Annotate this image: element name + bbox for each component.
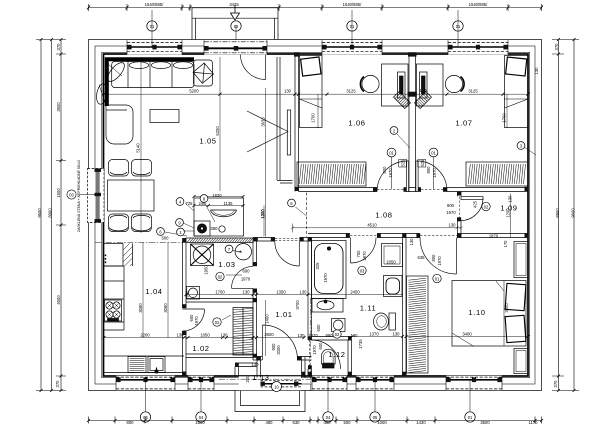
circled marker 02 entrance xyxy=(231,21,241,31)
wall 1.06/1.07 vertical xyxy=(409,54,416,192)
wall 1.01/1.11 vertical xyxy=(308,238,312,377)
svg-text:130: 130 xyxy=(298,333,306,338)
svg-text:600: 600 xyxy=(316,324,321,332)
svg-text:800: 800 xyxy=(382,166,387,174)
DOORS xyxy=(183,55,484,370)
bathtub 1.11 xyxy=(312,241,347,299)
chair 1.07 xyxy=(445,75,464,92)
svg-text:1370: 1370 xyxy=(369,332,379,337)
svg-text:1970: 1970 xyxy=(432,168,437,178)
marker 02 door 1.09 xyxy=(482,202,490,210)
svg-text:1300: 1300 xyxy=(260,209,265,219)
kitchen island xyxy=(194,198,244,236)
right dimension chains xyxy=(559,40,575,391)
bed 1.10 xyxy=(452,281,526,347)
circled marker 01 window living xyxy=(147,21,157,31)
svg-text:525: 525 xyxy=(401,159,406,167)
wall 1.11/1.10 vertical xyxy=(403,238,407,377)
svg-text:2450: 2450 xyxy=(350,290,360,295)
svg-text:03: 03 xyxy=(360,268,365,273)
FURNITURE xyxy=(95,56,528,374)
svg-text:500: 500 xyxy=(162,236,170,241)
svg-text:02: 02 xyxy=(335,332,340,337)
svg-text:370: 370 xyxy=(553,380,558,388)
svg-text:635: 635 xyxy=(418,255,426,260)
svg-text:4600: 4600 xyxy=(56,295,61,305)
svg-text:380: 380 xyxy=(211,226,219,231)
svg-text:01: 01 xyxy=(150,24,155,29)
svg-text:06: 06 xyxy=(143,415,148,420)
svg-text:130: 130 xyxy=(393,332,401,337)
kitchen tall cabinets + fridge xyxy=(104,244,133,267)
svg-text:9600: 9600 xyxy=(571,208,576,218)
dining chair top-right xyxy=(132,160,152,177)
floor lamp living xyxy=(95,60,127,105)
svg-text:1540/885/: 1540/885/ xyxy=(469,2,488,7)
wall 1.08/1.09 vertical xyxy=(458,192,462,238)
svg-text:02: 02 xyxy=(215,320,220,325)
exterior wall inner face xyxy=(104,54,529,376)
island dims xyxy=(194,197,264,237)
svg-text:1970: 1970 xyxy=(437,256,442,266)
svg-text:370: 370 xyxy=(56,43,61,51)
marker 02 door 1.02 xyxy=(213,318,221,326)
wall 1.02 bottom horizontal xyxy=(186,354,253,358)
svg-text:01: 01 xyxy=(389,150,394,155)
svg-text:ZASKLENÁ STENA + NEPRIEHĽADNÉ: ZASKLENÁ STENA + NEPRIEHĽADNÉ SKLO xyxy=(76,160,81,233)
walls room 1.13 xyxy=(235,357,305,378)
svg-text:940: 940 xyxy=(185,290,190,298)
svg-text:4510: 4510 xyxy=(367,223,377,228)
window W01 top (bedroom 1.06) xyxy=(322,10,382,55)
entrance arrow xyxy=(231,5,240,47)
marker 01 door 1.07 xyxy=(429,148,438,189)
svg-text:370: 370 xyxy=(554,43,559,51)
svg-text:130: 130 xyxy=(351,333,359,338)
sliding direction arrows xyxy=(247,111,288,152)
vanity with basin 1.11 bottom xyxy=(312,299,343,313)
svg-text:3125: 3125 xyxy=(346,89,356,94)
bedside cabinet 1.10 bottom xyxy=(514,349,528,374)
marker 01 door 1.10 xyxy=(433,274,441,282)
svg-text:01: 01 xyxy=(456,24,461,29)
svg-text:525: 525 xyxy=(420,159,425,167)
living vertical dim line 3630 xyxy=(265,88,267,237)
bottom window W04 (1.12) xyxy=(312,376,347,412)
marker 5 kitchen xyxy=(157,228,165,236)
door 1.13 leaf+swing xyxy=(263,325,298,360)
svg-text:130: 130 xyxy=(534,67,539,75)
door 1.09 leaf+swing xyxy=(461,197,483,221)
svg-text:1050: 1050 xyxy=(200,333,210,338)
window W02 entrance door top xyxy=(204,40,267,55)
corridor dim line xyxy=(291,224,463,233)
wall 1.11/1.12 horizontal xyxy=(312,337,352,341)
svg-text:600: 600 xyxy=(318,342,323,350)
svg-text:3125: 3125 xyxy=(468,89,478,94)
living vertical dim line 5200 xyxy=(219,57,221,191)
glazed partition stub living xyxy=(277,57,293,183)
svg-text:5140: 5140 xyxy=(136,143,141,153)
toilet 1.11 xyxy=(374,313,396,330)
svg-text:130: 130 xyxy=(300,290,308,295)
svg-text:01: 01 xyxy=(431,150,436,155)
svg-text:1170: 1170 xyxy=(528,420,538,425)
svg-text:1.04: 1.04 xyxy=(145,287,162,296)
svg-text:725: 725 xyxy=(186,201,194,206)
svg-text:10: 10 xyxy=(274,384,279,389)
kitchen counter left xyxy=(104,266,125,330)
svg-text:1135: 1135 xyxy=(223,201,233,206)
svg-text:1970: 1970 xyxy=(308,333,318,338)
marker 8 kitchen xyxy=(200,195,208,203)
window W01 top (bedroom 1.07) xyxy=(448,10,508,55)
washbasin 1.12 xyxy=(332,319,346,332)
marker 1 kitchen xyxy=(177,228,185,236)
leader lines kitchen callouts xyxy=(165,200,242,320)
svg-text:3080: 3080 xyxy=(138,303,143,313)
svg-text:325: 325 xyxy=(315,262,320,270)
svg-text:1700: 1700 xyxy=(502,113,507,123)
svg-text:800: 800 xyxy=(426,166,431,174)
svg-text:1700: 1700 xyxy=(311,113,316,123)
INTERIOR WALLS xyxy=(182,53,528,378)
marker 3 right wall xyxy=(517,142,525,150)
svg-text:130: 130 xyxy=(409,238,414,246)
svg-text:480: 480 xyxy=(266,420,274,425)
svg-text:800: 800 xyxy=(431,254,436,262)
svg-text:300: 300 xyxy=(245,375,250,383)
bottom dimension chain xyxy=(89,420,542,422)
rear porch bump 1.13 xyxy=(235,391,305,412)
svg-text:1.11: 1.11 xyxy=(360,304,377,313)
left chain ticks xyxy=(40,38,63,392)
svg-text:8960: 8960 xyxy=(48,208,53,218)
marker 02 door 1.03 xyxy=(216,272,224,280)
svg-text:2000: 2000 xyxy=(276,345,281,355)
marker 9 kitchen xyxy=(176,219,184,227)
wall 1.05/1.06 vertical xyxy=(295,54,299,192)
svg-text:02: 02 xyxy=(484,204,489,209)
circled marker 05 bottom xyxy=(370,412,380,422)
entrance porch top xyxy=(192,8,278,40)
coffee table living xyxy=(150,110,179,123)
wardrobe 1.07 hatched xyxy=(466,162,528,186)
bed 1.06 xyxy=(300,56,323,128)
svg-text:1200: 1200 xyxy=(506,208,511,218)
door 1.02 leaf+swing xyxy=(183,309,205,331)
svg-text:130: 130 xyxy=(449,223,457,228)
kitchen vertical dim lines xyxy=(143,243,168,338)
kitchen dim line y337.5 xyxy=(104,337,305,339)
corridor 1.01 top wall xyxy=(253,238,312,242)
dim line y294.5 xyxy=(186,294,312,296)
leader line marker 2 partition xyxy=(397,134,410,148)
sofa back living room xyxy=(107,59,194,106)
wardrobe 1.10 hatched xyxy=(407,276,429,373)
bottom window W06 (kitchen) xyxy=(116,376,175,412)
CIRCLED MARKERS xyxy=(157,127,525,339)
wall 1.01 bottom / 1.13 top xyxy=(253,357,312,361)
svg-text:960: 960 xyxy=(326,333,334,338)
dim line 1400 corridor 1.01 xyxy=(265,300,267,356)
circled marker 01 bottom right xyxy=(465,412,475,422)
bottom window W05 (1.11) xyxy=(356,376,394,412)
circled marker 04 bottom left xyxy=(196,412,206,422)
dim line 1200 room 1.09 xyxy=(509,194,511,239)
circled marker 06 bottom xyxy=(140,412,150,422)
chair 1.06 xyxy=(360,75,379,92)
svg-text:02: 02 xyxy=(218,274,223,279)
svg-text:1350: 1350 xyxy=(276,290,286,295)
desk 1.07 xyxy=(417,64,444,106)
top chain labels xyxy=(145,2,488,7)
kitchen stove xyxy=(105,300,122,321)
circled marker 10 rear porch xyxy=(272,382,282,392)
door 1.12 leaf+swing xyxy=(310,340,341,369)
dining chair top-left xyxy=(109,160,129,177)
svg-text:01: 01 xyxy=(350,24,355,29)
door 1.03 leaf+swing xyxy=(232,266,254,288)
svg-text:1.10: 1.10 xyxy=(468,308,485,317)
shower 1.03 xyxy=(191,244,214,266)
kitchen peninsula hatched wall xyxy=(186,238,253,243)
section dash-dot rear porch xyxy=(219,378,312,380)
marker 7 washer xyxy=(225,245,233,253)
svg-text:1700: 1700 xyxy=(215,290,225,295)
glazed wall left (opaque glass) xyxy=(80,169,104,223)
svg-text:1050: 1050 xyxy=(386,260,396,265)
svg-text:3400: 3400 xyxy=(462,332,472,337)
marker 03 door 1.11 xyxy=(358,266,366,274)
svg-text:3425: 3425 xyxy=(229,2,239,7)
INTERIOR DIM LINES xyxy=(95,57,536,392)
svg-text:1540/885/: 1540/885/ xyxy=(145,2,164,7)
svg-text:04: 04 xyxy=(326,415,331,420)
svg-text:01: 01 xyxy=(435,276,440,281)
svg-text:3700: 3700 xyxy=(295,300,300,310)
circled marker 01 window 1.07 xyxy=(453,21,463,31)
horizontal dim line y90 across top rooms xyxy=(104,93,528,95)
circled marker 01 window 1.06 xyxy=(347,21,357,31)
bedside cabinet 1.10 top xyxy=(514,242,528,278)
leader line marker 3 right xyxy=(524,147,536,155)
door 1.07 leaf+swing xyxy=(416,160,447,192)
desk 1.06 xyxy=(382,64,409,106)
svg-text:630: 630 xyxy=(293,420,301,425)
svg-text:130: 130 xyxy=(284,89,292,94)
bottom window W04 (1.02) xyxy=(188,376,214,412)
wardrobe 1.06 hatched xyxy=(297,162,366,186)
left dimension chains xyxy=(41,40,61,391)
svg-text:1.06: 1.06 xyxy=(348,119,365,128)
svg-text:1.08: 1.08 xyxy=(375,211,392,220)
window W01 top (living room) xyxy=(127,10,182,55)
door 1.11 leaf+swing xyxy=(351,238,377,264)
exterior wall insulation line xyxy=(95,46,535,384)
living vertical dim line 5140 xyxy=(140,57,142,233)
washing machine 1.03 xyxy=(233,244,252,260)
section dash-dot kitchen xyxy=(95,241,186,243)
washbasin counter 1.11 xyxy=(382,244,403,267)
bath dim line xyxy=(312,295,403,337)
svg-text:1.13: 1.13 xyxy=(252,373,269,382)
svg-text:800: 800 xyxy=(127,420,135,425)
dining table xyxy=(108,180,155,211)
BUILDING ENVELOPE xyxy=(80,5,542,422)
svg-text:1.02: 1.02 xyxy=(192,344,209,353)
svg-text:1.05: 1.05 xyxy=(199,137,216,146)
wall 1.04/1.03 vertical xyxy=(183,241,187,376)
wall 1.03/1.02 horizontal xyxy=(186,299,253,303)
svg-text:5200: 5200 xyxy=(215,126,220,136)
wall 1.12 right vertical xyxy=(348,340,352,376)
washbasin 1.03 xyxy=(187,287,200,300)
svg-text:1950: 1950 xyxy=(204,265,209,275)
svg-text:1540/885/: 1540/885/ xyxy=(343,2,362,7)
svg-text:500: 500 xyxy=(344,420,352,425)
svg-text:5200: 5200 xyxy=(189,89,199,94)
svg-text:3500: 3500 xyxy=(480,420,490,425)
svg-text:9600: 9600 xyxy=(37,208,42,218)
door 1.06 leaf+swing xyxy=(377,160,409,192)
svg-text:2000: 2000 xyxy=(504,303,509,313)
marker 01 door 1.06 xyxy=(387,148,396,189)
svg-text:600: 600 xyxy=(447,203,455,208)
svg-text:1970: 1970 xyxy=(388,168,393,178)
svg-text:130: 130 xyxy=(420,88,428,93)
door 1.10 leaf+swing xyxy=(420,238,457,275)
svg-text:1.03: 1.03 xyxy=(218,260,235,269)
marker 4 kitchen xyxy=(176,198,184,206)
leader line marker 6 corridor xyxy=(296,207,307,216)
svg-text:1970: 1970 xyxy=(446,210,456,215)
svg-text:3500: 3500 xyxy=(56,102,61,112)
svg-text:1735: 1735 xyxy=(358,339,363,349)
entrance door leaf+swing xyxy=(241,55,266,80)
svg-text:1870: 1870 xyxy=(489,233,499,238)
svg-text:8960: 8960 xyxy=(555,208,560,218)
svg-text:1830: 1830 xyxy=(212,193,222,198)
bedroom bed dim verticals xyxy=(318,94,507,128)
leader circle 03 left xyxy=(67,190,76,199)
bottom window W01 (1.10) xyxy=(446,376,502,412)
svg-text:130: 130 xyxy=(508,195,513,203)
svg-text:1.12: 1.12 xyxy=(328,350,345,359)
svg-text:1970: 1970 xyxy=(194,316,199,326)
marker 02 door 1.12 xyxy=(333,330,341,338)
marker 2 partition xyxy=(390,127,398,135)
svg-text:2200: 2200 xyxy=(140,333,150,338)
svg-text:1400: 1400 xyxy=(265,314,270,324)
svg-text:370: 370 xyxy=(55,380,60,388)
svg-text:1.01: 1.01 xyxy=(275,310,292,319)
svg-text:2600: 2600 xyxy=(264,332,274,337)
svg-text:1970: 1970 xyxy=(312,345,317,355)
svg-text:05: 05 xyxy=(373,415,378,420)
top dimension chain line xyxy=(89,7,542,9)
svg-text:3630: 3630 xyxy=(261,117,266,127)
svg-text:1970: 1970 xyxy=(241,276,251,281)
sliding panel living xyxy=(287,110,290,155)
svg-text:130: 130 xyxy=(252,362,260,367)
svg-text:130: 130 xyxy=(243,290,251,295)
wall junction blocks xyxy=(182,53,528,376)
sofa seats living room xyxy=(112,62,194,88)
svg-text:03: 03 xyxy=(69,192,74,197)
door 1.01 top leaf+swing xyxy=(275,241,300,266)
bedrooms bottom wall xyxy=(299,188,529,192)
bath dim line y336.5 xyxy=(352,336,528,338)
exterior wall outer outline xyxy=(89,40,542,391)
svg-text:1970: 1970 xyxy=(323,273,328,283)
dining chair bottom-left xyxy=(109,214,129,232)
svg-text:02: 02 xyxy=(234,24,239,29)
marker 6 corridor xyxy=(288,199,296,207)
svg-text:01: 01 xyxy=(468,415,473,420)
top chain ticks xyxy=(87,6,543,10)
washbasin 1.11 xyxy=(384,276,403,297)
svg-text:130: 130 xyxy=(221,333,229,338)
rear door opening 1.13 xyxy=(239,376,302,390)
svg-text:600: 600 xyxy=(243,269,251,274)
glazed wall note left xyxy=(76,160,81,233)
toilet 1.12 xyxy=(322,349,336,368)
svg-text:1.07: 1.07 xyxy=(455,119,472,128)
svg-text:425: 425 xyxy=(473,200,478,208)
shelves 1.02 hatched xyxy=(233,308,253,356)
svg-text:1970: 1970 xyxy=(362,251,367,261)
bed 1.07 xyxy=(505,56,529,128)
pinboard hatch 1.07 xyxy=(415,92,432,109)
svg-text:3080: 3080 xyxy=(163,303,168,313)
svg-text:170: 170 xyxy=(503,240,508,248)
svg-text:1430: 1430 xyxy=(416,420,426,425)
svg-text:700: 700 xyxy=(356,250,361,258)
circled marker 04 bottom mid xyxy=(323,412,333,422)
corridor 1.08 bottom wall xyxy=(308,197,528,238)
wall 1.03/1.01 vertical xyxy=(253,241,257,360)
dining chair bottom-right xyxy=(132,214,152,232)
section dash-dot 1.12 vertical xyxy=(310,298,312,392)
pinboard hatch 1.06 xyxy=(394,92,411,109)
svg-text:130: 130 xyxy=(177,333,185,338)
svg-text:04: 04 xyxy=(199,415,204,420)
kitchen bottom counter + sink xyxy=(104,356,185,373)
armchair with cushion living xyxy=(193,60,213,86)
svg-text:1500: 1500 xyxy=(56,188,61,198)
chaise armchair living xyxy=(106,105,133,144)
